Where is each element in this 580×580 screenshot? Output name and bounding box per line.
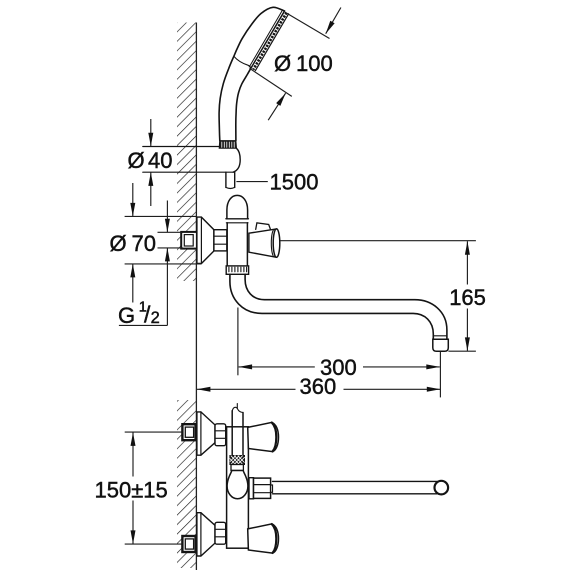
faucet dome cap — [227, 195, 248, 218]
hose break wavy top — [232, 407, 243, 412]
handle knurl ring — [219, 141, 236, 149]
aerator — [433, 339, 449, 351]
dim G half leaders — [158, 231, 184, 233]
arrowhead dim 360 right — [427, 387, 441, 392]
dim 300/360 ext right — [439, 352, 441, 398]
spout connector plate — [249, 478, 254, 499]
dim Ø100 arrow lines — [326, 8, 341, 34]
svg-text:G: G — [118, 303, 135, 328]
arrowhead dim 150 bottom — [131, 530, 136, 544]
spout nut bottom view — [254, 478, 271, 498]
dim 150 ext lines — [125, 431, 183, 433]
svg-text:150±15: 150±15 — [95, 478, 168, 503]
handle seam arc — [271, 229, 277, 256]
spout S-curve outer edge — [230, 274, 433, 339]
arrowhead dim O70 top — [130, 203, 135, 217]
arrowhead dim 165 top — [465, 241, 470, 255]
holder top edge + dim ext line — [143, 146, 221, 148]
arrowhead dim 360 left — [197, 387, 211, 392]
svg-text:165: 165 — [449, 285, 486, 310]
top wall square bottom view — [182, 424, 195, 440]
arrowhead dim 300 right — [426, 364, 440, 369]
arrowhead dim 150 top — [131, 432, 136, 446]
arrowhead dim O40 top — [148, 133, 153, 147]
dim 300 line — [239, 366, 315, 368]
wall square nut side view — [181, 232, 197, 249]
arrowhead dim G1/2 top — [165, 219, 170, 233]
wall hatch upper — [177, 23, 196, 282]
dim Ø70 arrow lines — [132, 183, 134, 216]
top hex nut bottom view — [215, 424, 226, 446]
bottom escutcheon bottom view — [197, 513, 215, 556]
bottom wall square bottom view — [182, 536, 195, 552]
dim Ø40 arrow lines — [150, 119, 152, 147]
wall hatch lower — [177, 400, 196, 568]
spout S-curve inner edge — [245, 274, 447, 339]
top escutcheon bottom view — [197, 412, 215, 455]
svg-text:Ø: Ø — [274, 51, 291, 76]
dim 300 ext left — [237, 308, 239, 376]
spout tube round end — [435, 481, 449, 495]
spout tube bottom view — [273, 481, 438, 493]
svg-text:1500: 1500 — [270, 170, 319, 195]
head-handle junction line — [234, 56, 251, 68]
svg-text:2: 2 — [151, 309, 160, 327]
spout joint line — [433, 335, 447, 337]
shower head nozzle dots — [253, 13, 286, 70]
svg-text:360: 360 — [300, 374, 337, 399]
hose nut knurl bottom view — [230, 456, 245, 465]
svg-text:40: 40 — [148, 148, 172, 173]
dim Ø100 ext upper — [285, 12, 330, 38]
dim 150 line — [132, 432, 134, 476]
dim 360 line — [197, 388, 296, 390]
handle end cap ellipse — [273, 229, 280, 257]
hose side view — [226, 172, 235, 187]
shower head back outline and handle left edge — [219, 7, 284, 140]
arrowhead dim 300 left — [239, 364, 253, 369]
shower head face line — [251, 11, 285, 68]
hose bottom view — [232, 411, 243, 456]
wall edge line — [195, 23, 197, 571]
dim Ø70 ext lines — [125, 215, 197, 217]
svg-text:Ø: Ø — [128, 148, 145, 173]
ball joint — [227, 471, 248, 499]
handle top tab — [256, 223, 271, 230]
handle side view cone — [249, 229, 277, 257]
dim 165 ext lines — [280, 240, 476, 242]
arrowhead dim G1/2 bottom — [165, 248, 170, 262]
dim 1500 leader — [236, 181, 267, 183]
svg-text:100: 100 — [296, 51, 333, 76]
dim 165 line — [466, 241, 468, 284]
holder right rounded end — [233, 148, 240, 172]
hex nut side view — [214, 230, 227, 251]
shower head handle right edge — [236, 68, 251, 140]
arrowhead dim 165 bottom — [465, 337, 470, 351]
bottom hex nut bottom view — [215, 522, 226, 544]
bottom handle bottom view — [248, 524, 279, 553]
hose nut band — [231, 465, 243, 471]
shower head nozzle strip outer edge — [255, 14, 288, 71]
body bottom view — [227, 427, 249, 548]
arrowhead dim O70 bottom — [130, 264, 135, 278]
dim Ø100 ext lower — [250, 68, 292, 96]
arrowhead dim O100 upper — [324, 21, 335, 35]
holder bottom edge + dim ext line — [143, 171, 233, 173]
svg-text:Ø: Ø — [110, 231, 127, 256]
shower head inner rim line — [249, 10, 282, 67]
escutcheon side view — [197, 217, 214, 263]
arrowhead dim O100 lower — [276, 92, 288, 106]
top handle bottom view — [248, 422, 279, 451]
svg-text:70: 70 — [132, 231, 156, 256]
arrowhead dim O40 bottom — [148, 172, 153, 186]
faucet body vertical — [227, 223, 247, 266]
collar with knurl ticks — [226, 266, 248, 274]
